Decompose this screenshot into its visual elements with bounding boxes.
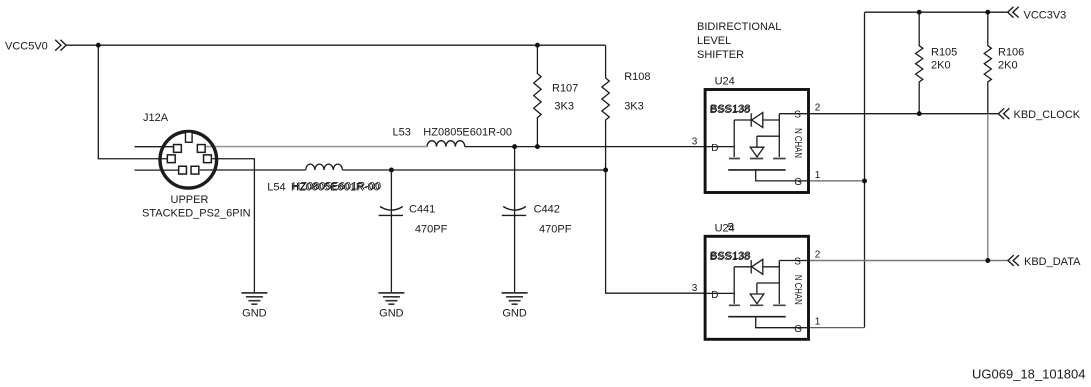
svg-text:C441: C441 — [409, 204, 435, 216]
svg-text:SHIFTER: SHIFTER — [697, 49, 744, 61]
svg-text:3K3: 3K3 — [554, 101, 574, 113]
svg-text:STACKED_PS2_6PIN: STACKED_PS2_6PIN — [142, 208, 251, 220]
svg-text:R107: R107 — [552, 83, 578, 95]
svg-text:BIDIRECTIONAL: BIDIRECTIONAL — [697, 21, 781, 33]
svg-text:3K3: 3K3 — [624, 101, 644, 113]
svg-text:470PF: 470PF — [539, 224, 572, 236]
svg-text:J12A: J12A — [143, 112, 169, 124]
svg-text:GND: GND — [242, 308, 267, 320]
svg-text:470PF: 470PF — [415, 224, 448, 236]
svg-text:L53: L53 — [393, 126, 411, 138]
svg-text:2K0: 2K0 — [931, 60, 951, 72]
svg-text:HZ0805E601R-00: HZ0805E601R-00 — [292, 181, 381, 193]
svg-text:5: 5 — [728, 222, 734, 234]
svg-text:L54: L54 — [267, 181, 285, 193]
svg-text:HZ0805E601R-00: HZ0805E601R-00 — [423, 126, 512, 138]
svg-text:C442: C442 — [534, 204, 560, 216]
svg-text:KBD_DATA: KBD_DATA — [1024, 256, 1081, 268]
svg-text:GND: GND — [379, 308, 404, 320]
svg-text:VCC5V0: VCC5V0 — [5, 41, 48, 53]
svg-text:LEVEL: LEVEL — [697, 35, 731, 47]
svg-text:VCC3V3: VCC3V3 — [1024, 10, 1067, 22]
svg-text:GND: GND — [502, 308, 527, 320]
svg-text:UG069_18_101804: UG069_18_101804 — [972, 367, 1086, 382]
svg-text:KBD_CLOCK: KBD_CLOCK — [1014, 109, 1081, 121]
svg-text:2K0: 2K0 — [998, 60, 1018, 72]
svg-text:UPPER: UPPER — [171, 194, 209, 206]
svg-text:R106: R106 — [998, 47, 1024, 59]
svg-text:R105: R105 — [931, 47, 957, 59]
svg-text:R108: R108 — [624, 71, 650, 83]
svg-text:U24: U24 — [715, 76, 735, 88]
